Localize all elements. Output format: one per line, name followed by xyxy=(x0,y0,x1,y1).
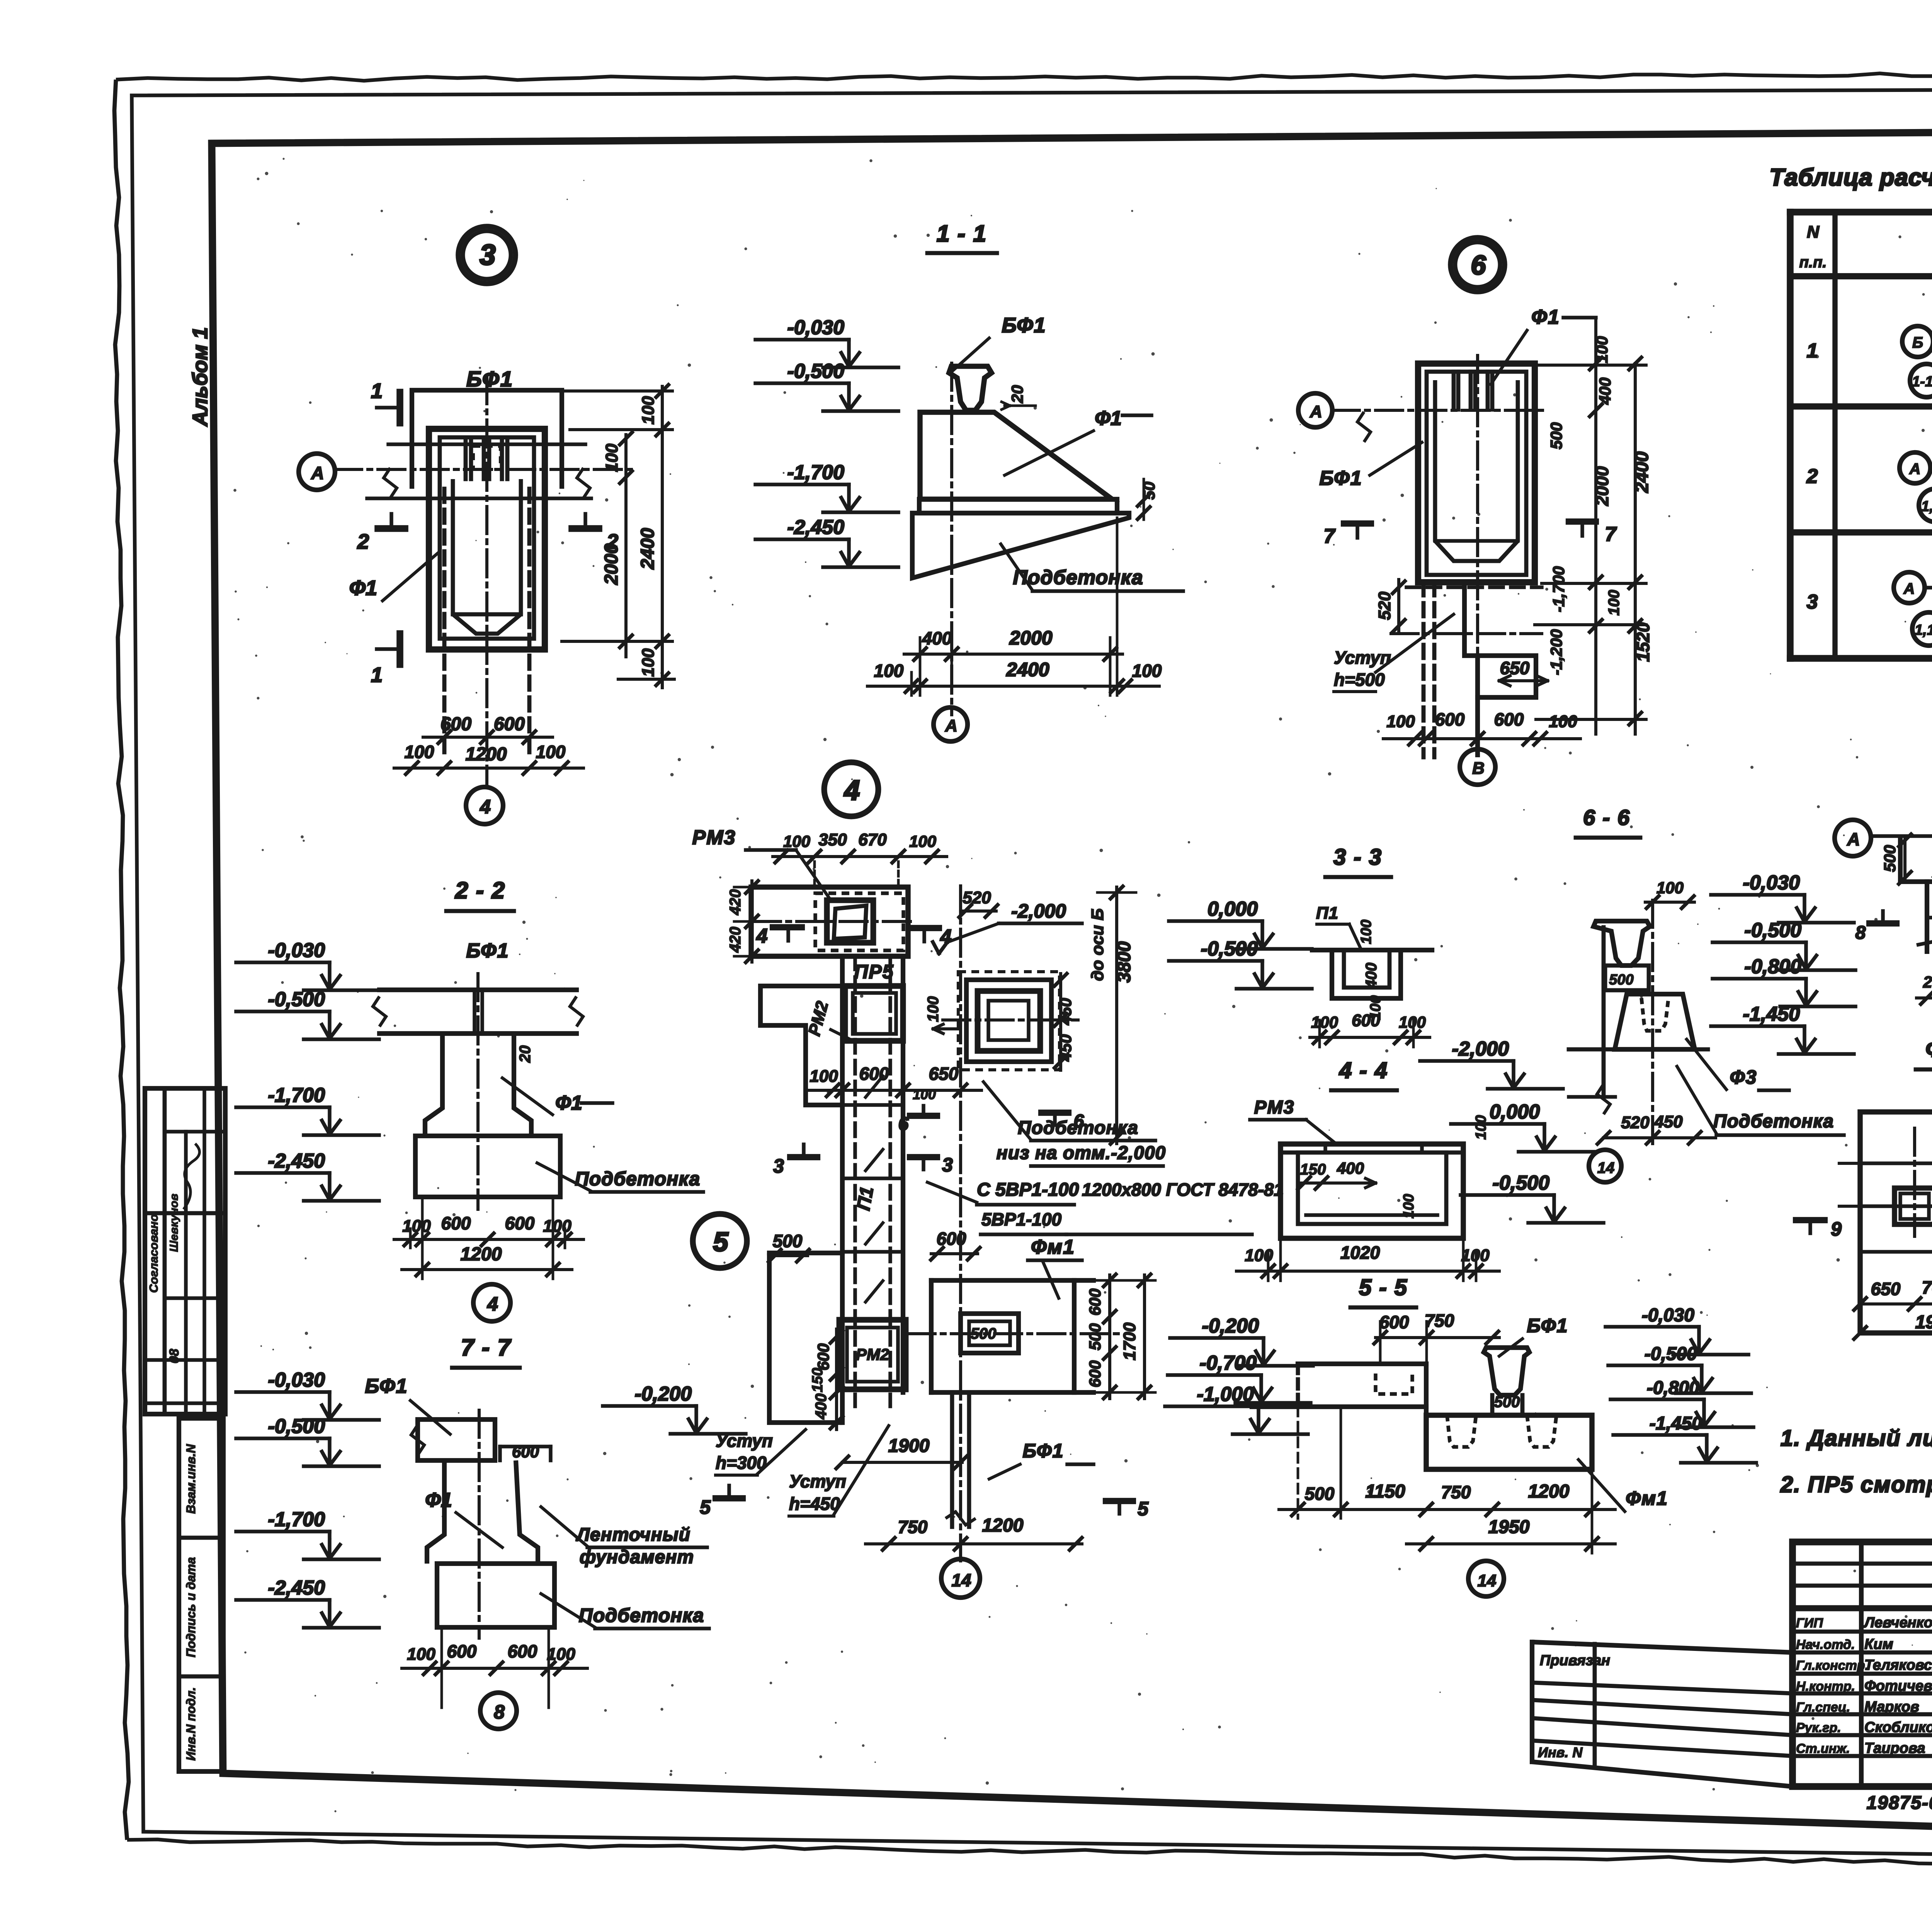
svg-text:500: 500 xyxy=(1494,1394,1520,1411)
svg-text:3: 3 xyxy=(942,1154,953,1176)
svg-text:100: 100 xyxy=(1132,661,1162,681)
svg-text:520: 520 xyxy=(1621,1113,1650,1132)
svg-text:600: 600 xyxy=(505,1213,535,1233)
svg-text:-2,450: -2,450 xyxy=(268,1577,325,1599)
svg-text:БФ1: БФ1 xyxy=(1002,314,1046,337)
svg-text:500: 500 xyxy=(1086,1323,1104,1350)
svg-text:ПР5: ПР5 xyxy=(854,961,894,983)
svg-text:2400: 2400 xyxy=(638,528,658,569)
svg-text:100: 100 xyxy=(913,1086,936,1102)
svg-text:-0,500: -0,500 xyxy=(1645,1344,1697,1364)
svg-text:Н.контр.: Н.контр. xyxy=(1796,1679,1855,1694)
svg-text:-0,030: -0,030 xyxy=(787,316,845,339)
svg-text:БФ1: БФ1 xyxy=(466,367,514,391)
svg-text:1200: 1200 xyxy=(1528,1481,1570,1502)
svg-text:-2,000: -2,000 xyxy=(1011,900,1066,922)
svg-text:ГИП: ГИП xyxy=(1796,1616,1823,1630)
svg-text:Согласовано.: Согласовано. xyxy=(147,1211,160,1293)
svg-text:600: 600 xyxy=(1435,709,1465,729)
svg-text:0,000: 0,000 xyxy=(1490,1101,1540,1123)
svg-text:П1: П1 xyxy=(853,1185,878,1212)
svg-text:Ст.инж.: Ст.инж. xyxy=(1796,1741,1850,1756)
svg-text:420: 420 xyxy=(727,889,744,916)
svg-text:-2,450: -2,450 xyxy=(787,516,845,539)
svg-text:600: 600 xyxy=(859,1064,889,1084)
svg-text:150: 150 xyxy=(1300,1161,1326,1178)
svg-text:9: 9 xyxy=(1831,1218,1842,1240)
svg-text:650: 650 xyxy=(929,1064,959,1084)
svg-text:РМ3: РМ3 xyxy=(1254,1097,1295,1118)
svg-text:А: А xyxy=(1903,580,1915,597)
svg-text:Фотичева: Фотичева xyxy=(1864,1678,1932,1694)
svg-text:-0,800: -0,800 xyxy=(1647,1378,1699,1398)
svg-text:N: N xyxy=(1807,223,1820,241)
svg-text:1200: 1200 xyxy=(466,744,507,765)
svg-text:1-14: 1-14 xyxy=(1912,374,1932,390)
svg-text:4: 4 xyxy=(487,1293,498,1315)
svg-text:1: 1 xyxy=(1807,340,1818,362)
svg-text:Ф3: Ф3 xyxy=(1730,1066,1757,1088)
svg-text:Марков: Марков xyxy=(1864,1699,1919,1715)
svg-text:-0,700: -0,700 xyxy=(1200,1352,1257,1374)
svg-text:Шевкунов: Шевкунов xyxy=(168,1194,180,1252)
svg-text:19875-01: 19875-01 xyxy=(1867,1793,1932,1813)
svg-text:100: 100 xyxy=(909,832,936,850)
svg-text:Гл.констр.: Гл.констр. xyxy=(1796,1658,1869,1673)
svg-text:Инв. N: Инв. N xyxy=(1538,1744,1583,1760)
svg-text:А: А xyxy=(1847,829,1860,849)
svg-text:А: А xyxy=(945,716,957,735)
svg-text:h=450: h=450 xyxy=(789,1494,840,1514)
svg-text:600: 600 xyxy=(937,1229,966,1249)
svg-text:100: 100 xyxy=(536,742,566,762)
svg-text:3: 3 xyxy=(773,1155,784,1177)
svg-text:4 - 4: 4 - 4 xyxy=(1339,1058,1388,1083)
svg-text:100: 100 xyxy=(925,996,942,1022)
svg-text:-1,700: -1,700 xyxy=(268,1508,325,1531)
svg-text:2: 2 xyxy=(357,530,369,553)
svg-text:100: 100 xyxy=(405,742,434,762)
svg-text:650: 650 xyxy=(1871,1279,1901,1299)
svg-text:3 - 3: 3 - 3 xyxy=(1333,845,1382,870)
svg-text:-0,500: -0,500 xyxy=(268,988,325,1011)
svg-text:2: 2 xyxy=(1806,465,1818,488)
svg-text:400: 400 xyxy=(1596,377,1614,405)
svg-text:1: 1 xyxy=(371,379,383,403)
svg-text:В: В xyxy=(1472,759,1485,778)
svg-text:А: А xyxy=(1909,461,1921,478)
svg-text:-1,450: -1,450 xyxy=(1743,1003,1800,1025)
svg-text:2 - 2: 2 - 2 xyxy=(455,877,505,903)
svg-text:290: 290 xyxy=(1923,973,1932,991)
svg-text:100: 100 xyxy=(1605,590,1622,616)
svg-text:100: 100 xyxy=(639,396,658,425)
svg-text:Таирова: Таирова xyxy=(1864,1740,1925,1756)
svg-text:Таблица расчетных нагрузок на: Таблица расчетных нагрузок на верхний об… xyxy=(1769,164,1932,191)
svg-text:600: 600 xyxy=(440,714,471,734)
svg-text:100: 100 xyxy=(1311,1013,1338,1031)
svg-text:Левченкова: Левченкова xyxy=(1863,1615,1932,1631)
svg-text:1020: 1020 xyxy=(1340,1243,1380,1263)
svg-text:100: 100 xyxy=(874,661,904,681)
svg-text:Рук.гр.: Рук.гр. xyxy=(1796,1720,1841,1735)
svg-text:420: 420 xyxy=(727,927,744,953)
svg-text:5: 5 xyxy=(713,1227,729,1257)
svg-text:Подбетонка: Подбетонка xyxy=(575,1168,700,1190)
svg-text:4: 4 xyxy=(756,925,768,947)
svg-text:1150: 1150 xyxy=(1365,1481,1405,1502)
svg-text:-0,500: -0,500 xyxy=(1201,938,1258,960)
svg-text:А: А xyxy=(1310,402,1322,421)
svg-text:100: 100 xyxy=(1358,920,1374,944)
svg-text:Подбетонка: Подбетонка xyxy=(579,1605,704,1626)
svg-text:670: 670 xyxy=(858,830,887,849)
svg-text:1,14: 1,14 xyxy=(1921,498,1932,515)
svg-text:400: 400 xyxy=(922,628,952,648)
svg-text:100: 100 xyxy=(1656,879,1684,897)
svg-text:1700: 1700 xyxy=(1120,1323,1139,1360)
svg-text:8: 8 xyxy=(494,1701,505,1723)
svg-text:Фм1: Фм1 xyxy=(1925,1037,1932,1062)
svg-text:Ф1: Ф1 xyxy=(1531,306,1560,328)
svg-text:500: 500 xyxy=(1305,1484,1335,1504)
svg-text:4: 4 xyxy=(480,796,491,818)
svg-text:Уступ: Уступ xyxy=(1334,648,1391,668)
svg-text:350: 350 xyxy=(818,830,847,849)
svg-text:400: 400 xyxy=(1337,1159,1364,1177)
svg-text:6 - 6: 6 - 6 xyxy=(1583,805,1630,830)
svg-text:750: 750 xyxy=(898,1517,928,1537)
svg-text:-1,200: -1,200 xyxy=(1547,629,1565,675)
svg-text:до оси Б: до оси Б xyxy=(1088,908,1107,981)
svg-text:1. Данный лист смотреть с лист: 1. Данный лист смотреть с листом ЛС-12 xyxy=(1781,1426,1932,1451)
svg-text:БФ1: БФ1 xyxy=(1023,1440,1064,1462)
svg-text:Привязан: Привязан xyxy=(1540,1652,1610,1669)
svg-text:1200х800 ГОСТ 8478-81: 1200х800 ГОСТ 8478-81 xyxy=(1082,1180,1284,1200)
svg-text:5 - 5: 5 - 5 xyxy=(1359,1275,1408,1300)
svg-text:600: 600 xyxy=(814,1343,832,1370)
svg-text:Нач.отд.: Нач.отд. xyxy=(1796,1637,1855,1652)
svg-text:БФ1: БФ1 xyxy=(365,1375,408,1397)
svg-text:3: 3 xyxy=(1807,591,1818,613)
svg-text:Теляковский: Теляковский xyxy=(1864,1657,1932,1673)
svg-text:20: 20 xyxy=(517,1045,534,1063)
svg-text:2000: 2000 xyxy=(1009,627,1052,649)
svg-text:Подбетонка: Подбетонка xyxy=(1018,1118,1138,1138)
svg-text:БФ1: БФ1 xyxy=(1320,467,1362,490)
svg-text:1900: 1900 xyxy=(888,1436,930,1456)
svg-text:100: 100 xyxy=(1549,712,1577,731)
svg-text:600: 600 xyxy=(1086,1360,1104,1387)
svg-text:600: 600 xyxy=(1086,1289,1104,1316)
svg-text:1950: 1950 xyxy=(1915,1312,1932,1333)
svg-text:650: 650 xyxy=(1500,658,1530,678)
svg-text:Подпись и дата: Подпись и дата xyxy=(184,1557,198,1657)
svg-text:500: 500 xyxy=(1609,972,1633,988)
svg-text:450: 450 xyxy=(1654,1112,1683,1131)
svg-text:1,14: 1,14 xyxy=(1915,622,1932,638)
svg-text:5: 5 xyxy=(700,1496,711,1518)
svg-text:600: 600 xyxy=(512,1443,539,1461)
svg-text:БФ1: БФ1 xyxy=(466,940,509,962)
svg-text:Инв.N подл.: Инв.N подл. xyxy=(184,1687,198,1761)
svg-text:Фм1: Фм1 xyxy=(1626,1487,1668,1509)
svg-text:Уступ: Уступ xyxy=(716,1431,773,1451)
svg-text:400: 400 xyxy=(1363,963,1380,989)
svg-text:РМ3: РМ3 xyxy=(692,826,736,849)
svg-text:Ф1: Ф1 xyxy=(425,1489,452,1511)
svg-text:h=300: h=300 xyxy=(716,1453,767,1473)
svg-text:Б: Б xyxy=(1912,334,1923,351)
svg-text:100: 100 xyxy=(407,1645,435,1664)
svg-text:600: 600 xyxy=(508,1641,537,1661)
svg-text:100: 100 xyxy=(810,1067,838,1086)
svg-text:Гл.спец.: Гл.спец. xyxy=(1796,1700,1850,1715)
svg-text:-1,000: -1,000 xyxy=(1197,1383,1254,1406)
svg-text:6: 6 xyxy=(1471,250,1486,280)
svg-text:600: 600 xyxy=(1379,1312,1409,1332)
svg-text:Ленточный: Ленточный xyxy=(576,1525,690,1545)
svg-text:100: 100 xyxy=(1401,1194,1417,1218)
svg-text:Ф1: Ф1 xyxy=(349,576,377,600)
svg-text:14: 14 xyxy=(951,1570,971,1590)
svg-text:5ВР1-100: 5ВР1-100 xyxy=(981,1209,1062,1229)
svg-text:600: 600 xyxy=(1494,709,1524,729)
svg-text:РМ2: РМ2 xyxy=(856,1345,889,1363)
svg-text:2400: 2400 xyxy=(1006,659,1049,680)
svg-text:600: 600 xyxy=(1352,1011,1380,1030)
svg-text:100: 100 xyxy=(1386,712,1415,731)
svg-text:500: 500 xyxy=(1881,845,1899,872)
svg-text:-0,030: -0,030 xyxy=(1743,872,1800,894)
svg-text:8: 8 xyxy=(1855,923,1866,943)
svg-text:150: 150 xyxy=(810,1368,826,1392)
svg-text:14: 14 xyxy=(1478,1571,1497,1590)
svg-text:С 5ВР1-100: С 5ВР1-100 xyxy=(977,1180,1079,1200)
svg-text:1200: 1200 xyxy=(982,1515,1024,1536)
svg-text:100: 100 xyxy=(639,648,658,677)
svg-text:-1,700: -1,700 xyxy=(1549,566,1568,612)
svg-text:Взам.инв.N: Взам.инв.N xyxy=(184,1444,198,1514)
svg-text:14: 14 xyxy=(1597,1159,1615,1176)
svg-text:Альбом 1: Альбом 1 xyxy=(189,327,212,427)
svg-text:5: 5 xyxy=(1138,1498,1149,1520)
svg-text:0,000: 0,000 xyxy=(1207,898,1258,920)
svg-text:500: 500 xyxy=(1547,422,1565,449)
svg-text:08: 08 xyxy=(167,1349,182,1363)
svg-text:750: 750 xyxy=(1441,1482,1471,1502)
svg-text:-1,700: -1,700 xyxy=(787,461,845,484)
svg-text:БФ1: БФ1 xyxy=(1527,1315,1568,1336)
svg-text:А: А xyxy=(311,463,324,483)
svg-text:1200: 1200 xyxy=(461,1244,502,1265)
svg-text:Ф1: Ф1 xyxy=(555,1092,582,1114)
svg-text:500: 500 xyxy=(773,1231,803,1251)
svg-text:-2,000: -2,000 xyxy=(1452,1038,1509,1060)
svg-text:Ким: Ким xyxy=(1864,1636,1893,1652)
svg-text:100: 100 xyxy=(783,832,810,850)
svg-text:1 - 1: 1 - 1 xyxy=(937,221,987,246)
svg-text:600: 600 xyxy=(447,1641,477,1661)
svg-text:Скобликов: Скобликов xyxy=(1864,1719,1932,1736)
svg-text:-0,500: -0,500 xyxy=(1745,919,1802,942)
svg-text:низ на отм.-2,000: низ на отм.-2,000 xyxy=(997,1143,1166,1163)
svg-text:700: 700 xyxy=(1922,1277,1932,1297)
svg-text:-1,450: -1,450 xyxy=(1650,1413,1702,1434)
svg-text:-0,500: -0,500 xyxy=(268,1415,325,1438)
svg-text:2000: 2000 xyxy=(601,543,622,585)
svg-text:-0,030: -0,030 xyxy=(1642,1305,1694,1326)
svg-text:100: 100 xyxy=(602,444,621,472)
svg-text:7 - 7: 7 - 7 xyxy=(461,1334,512,1360)
svg-text:20: 20 xyxy=(1008,385,1026,404)
svg-text:-0,030: -0,030 xyxy=(268,1369,325,1391)
svg-text:-0,500: -0,500 xyxy=(787,360,845,382)
svg-text:-0,500: -0,500 xyxy=(1493,1172,1550,1194)
svg-text:Уступ: Уступ xyxy=(789,1471,846,1491)
svg-text:-2,450: -2,450 xyxy=(268,1150,325,1172)
svg-text:Фм1: Фм1 xyxy=(1031,1236,1075,1258)
svg-text:100: 100 xyxy=(1473,1115,1489,1139)
svg-text:Подбетонка: Подбетонка xyxy=(1713,1111,1834,1132)
svg-text:1950: 1950 xyxy=(1488,1517,1530,1537)
svg-text:400: 400 xyxy=(813,1394,830,1420)
svg-text:-0,200: -0,200 xyxy=(1202,1315,1259,1337)
svg-text:п.п.: п.п. xyxy=(1799,254,1827,271)
svg-text:520: 520 xyxy=(963,888,991,907)
svg-text:2. ПР5 смотри на листе ЛС-6: 2. ПР5 смотри на листе ЛС-6 xyxy=(1780,1472,1932,1497)
svg-text:Ф1: Ф1 xyxy=(1095,407,1122,430)
svg-text:750: 750 xyxy=(1425,1311,1454,1331)
svg-text:-1,700: -1,700 xyxy=(268,1084,325,1107)
svg-text:Подбетонка: Подбетонка xyxy=(1013,566,1143,589)
svg-text:-0,200: -0,200 xyxy=(635,1383,692,1405)
svg-text:1: 1 xyxy=(371,663,383,687)
svg-text:-0,800: -0,800 xyxy=(1745,955,1802,978)
svg-text:600: 600 xyxy=(441,1213,471,1233)
svg-text:520: 520 xyxy=(1375,592,1394,620)
svg-text:фундамент: фундамент xyxy=(580,1547,694,1567)
svg-text:6: 6 xyxy=(898,1114,909,1134)
svg-text:-0,030: -0,030 xyxy=(268,939,325,962)
svg-text:3: 3 xyxy=(480,239,495,271)
svg-text:600: 600 xyxy=(494,714,525,734)
svg-text:100: 100 xyxy=(547,1645,575,1664)
svg-text:7: 7 xyxy=(1605,523,1617,546)
svg-text:П1: П1 xyxy=(1316,904,1338,923)
